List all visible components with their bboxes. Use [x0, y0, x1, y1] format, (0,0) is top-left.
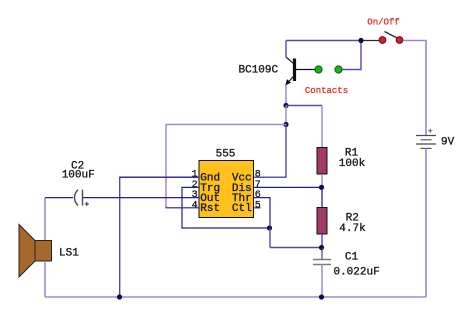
IC U1 555	[199, 161, 254, 218]
wire battery negative down	[425, 148, 427, 297]
wire R2 bottom lead	[321, 234, 323, 248]
node Trg/Thr junction	[267, 225, 272, 230]
svg-text:C1: C1	[345, 252, 359, 264]
resistor R1	[317, 148, 327, 175]
wire switch feed segment	[361, 40, 379, 42]
wire Out pin3 to C2	[83, 197, 199, 199]
wire Gnd pin1 to ground rail	[120, 177, 199, 297]
node switch junction	[358, 38, 363, 43]
svg-text:100k: 100k	[339, 158, 366, 170]
wire emitter down	[285, 85, 287, 106]
svg-text:Contacts: Contacts	[305, 86, 348, 96]
svg-text:5: 5	[255, 200, 261, 211]
node C1 ground junction	[319, 294, 324, 299]
node Vcc/Rst junction	[283, 122, 288, 127]
svg-text:Rst: Rst	[200, 203, 220, 215]
svg-text:BC109C: BC109C	[239, 65, 279, 77]
wire junction down	[285, 106, 287, 125]
svg-text:555: 555	[216, 149, 236, 161]
node ground rail junction left	[117, 294, 122, 299]
svg-text:4: 4	[192, 200, 198, 211]
contact terminal right (green)	[335, 66, 342, 73]
wire C2 down to speaker	[44, 198, 46, 241]
speaker LS1	[19, 225, 52, 278]
wire collector up to rail	[285, 41, 287, 58]
wire bottom rail	[45, 296, 426, 298]
switch S1 lever	[385, 32, 401, 40]
resistor R2	[317, 208, 327, 235]
contact terminal left (green)	[315, 66, 322, 73]
svg-text:4.7k: 4.7k	[339, 223, 366, 235]
switch terminal right	[396, 37, 403, 44]
node R2/C1 junction	[319, 245, 324, 250]
node emitter junction	[283, 103, 288, 108]
wire switch to top-right corner and right rail down to battery	[403, 41, 426, 136]
svg-text:9V: 9V	[441, 137, 455, 149]
battery B1	[416, 136, 436, 149]
wire junction down to Vcc pin 8	[285, 125, 287, 178]
switch terminal left	[379, 37, 386, 44]
capacitor C2	[45, 190, 83, 206]
wire Trg loop	[182, 187, 270, 228]
svg-text:Ctl: Ctl	[232, 203, 252, 215]
svg-text:+: +	[84, 200, 89, 210]
wire contact to switch junction	[342, 41, 361, 70]
wire top rail from collector to switch junction	[286, 40, 361, 42]
svg-text:0.022uF: 0.022uF	[333, 267, 379, 279]
wire R1 bottom lead	[321, 174, 323, 187]
svg-text:LS1: LS1	[59, 248, 79, 260]
wire Thr pin6 loop	[254, 198, 271, 228]
svg-text:On/Off: On/Off	[367, 18, 399, 28]
svg-text:100uF: 100uF	[62, 170, 95, 182]
capacitor C1	[313, 248, 331, 298]
wire emitter junction to R1 top	[286, 105, 322, 107]
wire to R2/C1 junction	[270, 247, 322, 249]
wire Dis pin7 to R1/R2 junction	[254, 186, 322, 188]
wire Rst loop top	[166, 125, 286, 208]
wire Ctl stub pin5	[254, 207, 261, 209]
transistor Q1 BC109C	[286, 57, 315, 85]
svg-text:+: +	[428, 127, 433, 137]
wire R2 top lead	[321, 187, 323, 207]
node R1/R2/Dis junction	[319, 185, 324, 190]
wire speaker to ground rail	[44, 261, 46, 297]
